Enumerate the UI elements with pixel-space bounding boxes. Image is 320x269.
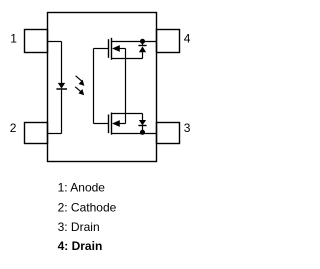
- svg-text:3: 3: [184, 121, 191, 135]
- svg-text:1: 1: [10, 31, 17, 45]
- svg-text:2: Cathode: 2: Cathode: [58, 200, 117, 214]
- svg-text:1: Anode: 1: Anode: [58, 180, 106, 194]
- svg-text:2: 2: [10, 121, 17, 135]
- svg-text:4: Drain: 4: Drain: [58, 239, 103, 253]
- svg-text:4: 4: [184, 31, 191, 45]
- svg-text:3: Drain: 3: Drain: [58, 220, 100, 234]
